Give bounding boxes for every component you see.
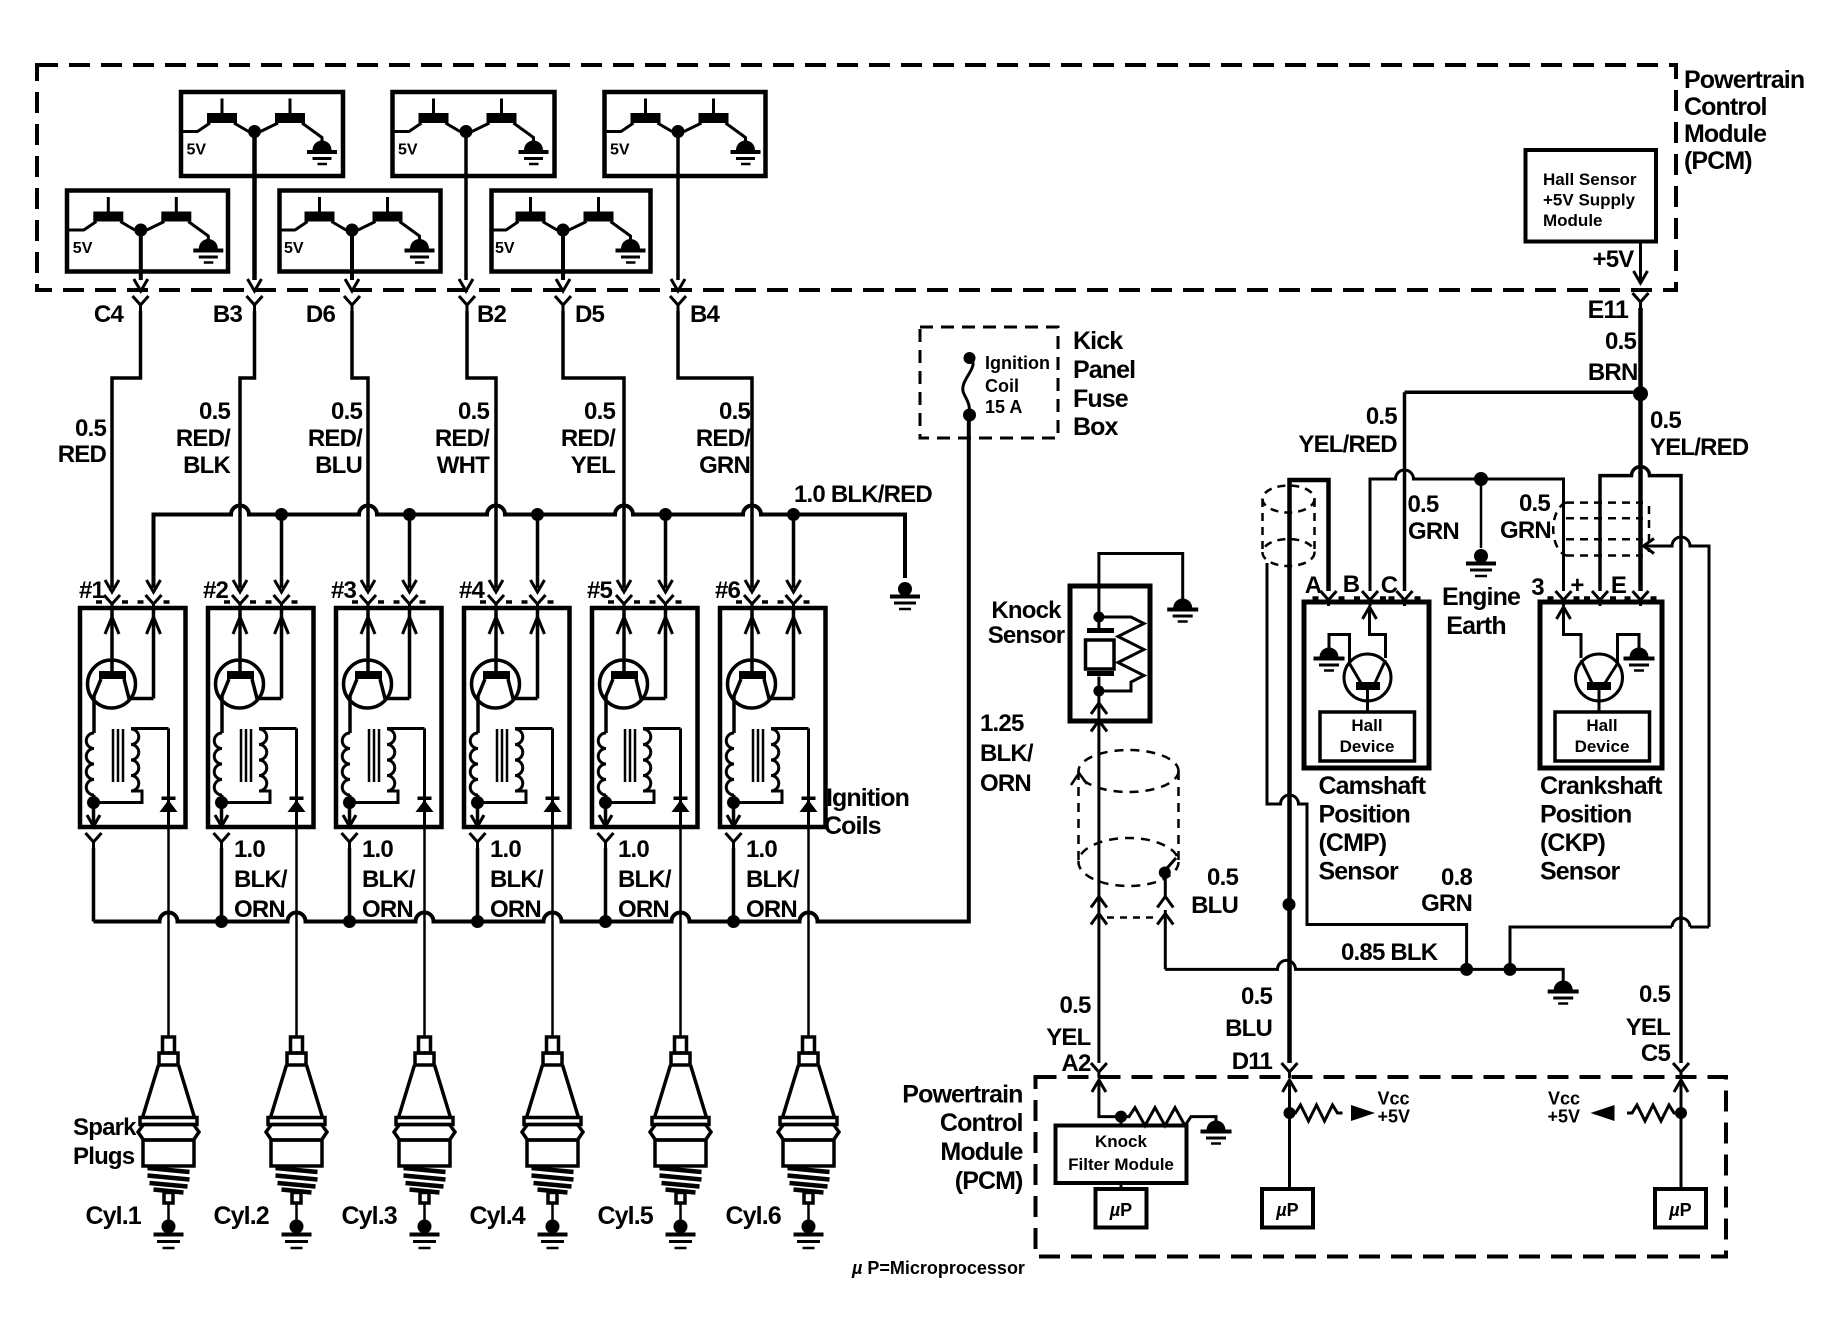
svg-text:B2: B2	[477, 301, 507, 328]
label Kick Panel Fuse Box	[1073, 327, 1135, 441]
svg-text:0.5: 0.5	[1639, 981, 1670, 1008]
CKP sensor box	[1540, 602, 1662, 768]
svg-text:0.5: 0.5	[1650, 407, 1681, 434]
dashed connector tie line	[1107, 916, 1158, 919]
coil bottom output connectors	[86, 833, 742, 848]
svg-text:0.5: 0.5	[458, 398, 489, 425]
svg-text:Device: Device	[1575, 737, 1630, 756]
ignition coil T3	[331, 577, 442, 827]
connector pin B4	[670, 296, 721, 328]
svg-text:0.5: 0.5	[199, 398, 230, 425]
svg-text:A: A	[1305, 572, 1322, 599]
wire 0.5 GRN bus with hop over pin C wire	[1370, 470, 1564, 591]
spark plug cyl 5	[650, 1037, 711, 1248]
wire CKP pin + to PCM C5 (0.5 YEL)	[1600, 467, 1681, 1063]
connector pin B3	[213, 296, 263, 328]
svg-text:Position: Position	[1319, 801, 1410, 829]
CKP Hall Device box	[1555, 712, 1650, 761]
driver U4 (C4) box	[67, 191, 228, 272]
svg-text:YEL: YEL	[1046, 1024, 1090, 1051]
knock signal connector chevrons	[1091, 896, 1107, 1063]
spark plug cyl 4	[522, 1037, 583, 1248]
driver U1 (B3) box	[181, 92, 343, 176]
svg-text:Sensor: Sensor	[1540, 858, 1621, 886]
driver U2 (B2) box	[393, 92, 555, 176]
wire bus 0.85 BLK with hop over D11 wire	[1165, 960, 1563, 982]
wire CMP pin A to PCM D11 (0.5 BLU)	[1283, 480, 1329, 1063]
svg-text:Cyl.5: Cyl.5	[598, 1202, 654, 1230]
svg-text:A2: A2	[1061, 1050, 1091, 1077]
label Powertrain Control Module (PCM) bottom left	[902, 1081, 1023, 1196]
svg-text:Cyl.3: Cyl.3	[342, 1202, 397, 1230]
svg-text:YEL/RED: YEL/RED	[1298, 431, 1397, 458]
svg-text:Ignition: Ignition	[985, 353, 1050, 373]
svg-text:Plugs: Plugs	[73, 1143, 135, 1170]
spark plug HT wires	[169, 827, 809, 1037]
ground dome for knock shield	[1167, 599, 1198, 622]
svg-text:Knock: Knock	[1095, 1132, 1148, 1151]
svg-text:RED/: RED/	[696, 425, 751, 452]
svg-text:WHT: WHT	[437, 452, 490, 479]
ground dome in PCM knock channel	[1201, 1121, 1232, 1144]
svg-text:Vcc: Vcc	[1548, 1089, 1580, 1109]
CKP shield drain wire	[1510, 537, 1709, 966]
label 0.5 YEL A2	[1046, 992, 1091, 1077]
Knock Filter Module box	[1056, 1117, 1187, 1183]
ignition coil T1	[79, 577, 186, 827]
spark plug cyl 2	[266, 1037, 327, 1248]
svg-text:RED/: RED/	[561, 425, 616, 452]
PCM (bottom) enclosure dashed box	[1036, 1077, 1727, 1257]
svg-text:+5V: +5V	[1378, 1107, 1411, 1127]
CKP shield oval dashed	[1553, 503, 1649, 556]
wire branch to pin C	[1405, 391, 1641, 395]
svg-text:GRN: GRN	[699, 452, 750, 479]
microprocessor box 2	[1262, 1189, 1313, 1228]
wire: B4 driver output	[671, 132, 685, 292]
svg-text:Module: Module	[1543, 211, 1603, 230]
svg-text:Fuse: Fuse	[1073, 385, 1129, 413]
label 0.5 RED/BLK	[176, 398, 232, 479]
svg-text:Cyl.2: Cyl.2	[214, 1202, 269, 1230]
svg-text:1.0: 1.0	[362, 836, 393, 863]
svg-text:Cyl.4: Cyl.4	[470, 1202, 526, 1230]
CMP pin connectors A B C	[1305, 571, 1421, 606]
junction dots on BLK/RED bus	[275, 508, 800, 521]
svg-text:BLU: BLU	[1225, 1015, 1272, 1042]
svg-text:Knock: Knock	[991, 597, 1062, 624]
svg-text:0.5: 0.5	[1519, 490, 1550, 517]
label Ignition Coils	[824, 784, 909, 840]
svg-text:RED: RED	[58, 441, 107, 468]
svg-text:+: +	[1570, 572, 1584, 599]
svg-text:C: C	[1381, 572, 1398, 599]
label 0.5 YEL/RED left	[1298, 403, 1397, 458]
svg-text:BRN: BRN	[1588, 359, 1638, 386]
svg-text:GRN: GRN	[1421, 890, 1472, 917]
connector A2 into PCM	[1091, 1063, 1107, 1092]
svg-text:Panel: Panel	[1073, 356, 1135, 384]
svg-text:1.0: 1.0	[618, 836, 649, 863]
svg-text:Crankshaft: Crankshaft	[1540, 772, 1663, 800]
svg-text:B: B	[1343, 571, 1360, 598]
svg-text:D5: D5	[575, 301, 605, 328]
Hall Sensor +5V Supply Module box	[1526, 150, 1657, 242]
svg-text:BLU: BLU	[1191, 892, 1238, 919]
coil primary return wires	[94, 848, 734, 922]
labels Cyl.1 - Cyl.6	[86, 1202, 781, 1230]
wire 0.5 RED/BLK to coil 2	[240, 311, 255, 588]
svg-text:0.5: 0.5	[1207, 864, 1238, 891]
svg-text:Position: Position	[1540, 801, 1631, 829]
svg-text:#6: #6	[715, 577, 741, 604]
svg-text:0.5: 0.5	[1241, 983, 1272, 1010]
wire: B2 driver output	[459, 132, 473, 292]
knock shield drain wire to BLK bus	[1157, 858, 1176, 969]
label Crankshaft Position (CKP) Sensor	[1540, 772, 1663, 886]
svg-text:YEL: YEL	[1626, 1014, 1670, 1041]
svg-text:(PCM): (PCM)	[955, 1167, 1023, 1195]
CKP pin connectors 3 + E	[1531, 572, 1656, 606]
svg-text:C5: C5	[1641, 1040, 1671, 1067]
svg-text:Ignition: Ignition	[826, 784, 909, 812]
CKP internal ground dome	[1624, 648, 1655, 671]
labels 1.0 BLK/ORN	[234, 836, 800, 923]
ground for BLK/RED bus	[890, 582, 920, 609]
svg-text:BLU: BLU	[315, 452, 362, 479]
svg-text:(CMP): (CMP)	[1319, 829, 1387, 857]
svg-text:E11: E11	[1588, 296, 1629, 324]
svg-text:+5V Supply: +5V Supply	[1543, 191, 1636, 210]
svg-text:Powertrain: Powertrain	[902, 1081, 1022, 1109]
svg-text:Hall: Hall	[1586, 716, 1617, 735]
connector D11 into PCM	[1282, 1063, 1298, 1092]
CMP Hall Device box	[1320, 712, 1415, 761]
svg-text:RED/: RED/	[435, 425, 490, 452]
svg-text:Coil: Coil	[985, 376, 1019, 396]
label 1.25 BLK/ORN	[980, 710, 1034, 797]
CMP harness shield dashed cylinder	[1263, 486, 1315, 567]
CMP sensor box	[1304, 602, 1429, 768]
knock sensor output connector chevrons	[1091, 691, 1107, 896]
wire 0.5 RED/BLU to coil 3	[352, 311, 368, 588]
svg-text:Control: Control	[940, 1109, 1023, 1137]
wire 0.5 YEL/RED to CMP pin C	[1403, 392, 1407, 591]
svg-text:ORN: ORN	[618, 896, 669, 923]
knock sensor piezo element	[1086, 586, 1115, 697]
driver U5 (D6) box	[279, 191, 441, 272]
label 0.5 RED/YEL	[561, 398, 616, 479]
svg-text:Powertrain: Powertrain	[1684, 66, 1804, 94]
svg-text:Control: Control	[1684, 93, 1767, 121]
knock input channel: wire, dot, resistor, ground	[1099, 1080, 1216, 1126]
label 0.5 BLU (knock area)	[1191, 864, 1238, 919]
knock sensor resistor	[1099, 617, 1144, 691]
svg-text:Earth: Earth	[1446, 612, 1505, 640]
label 0.5 RED	[58, 415, 107, 468]
svg-text:+5V: +5V	[1593, 246, 1635, 273]
CMP internal ground dome	[1314, 648, 1345, 671]
svg-text:BLK/: BLK/	[618, 866, 672, 893]
junction dots on BLK bus	[1460, 963, 1516, 976]
spark plug cyl 1	[138, 1037, 199, 1248]
coil input connectors row	[96, 580, 810, 610]
ignition coil T4	[459, 577, 570, 827]
spark plug cyl 6	[778, 1037, 839, 1248]
svg-text:+5V: +5V	[1547, 1107, 1580, 1127]
svg-text:0.5: 0.5	[331, 398, 362, 425]
svg-text:YEL/RED: YEL/RED	[1650, 434, 1749, 461]
connector pin B2	[459, 296, 507, 328]
PCM (top) enclosure dashed box	[37, 65, 1676, 290]
svg-text:ORN: ORN	[490, 896, 541, 923]
svg-text:RED/: RED/	[308, 425, 363, 452]
svg-text:Sensor: Sensor	[988, 622, 1065, 649]
shield arrow mark	[1071, 773, 1087, 785]
svg-text:#1: #1	[79, 577, 105, 604]
svg-text:(CKP): (CKP)	[1540, 829, 1606, 857]
microprocessor box 1	[1096, 1183, 1147, 1228]
label 0.5 RED/GRN	[696, 398, 751, 479]
connector pin D5	[555, 296, 605, 328]
svg-text:#2: #2	[203, 577, 229, 604]
svg-text:Module: Module	[1684, 120, 1767, 148]
svg-text:0.5: 0.5	[1408, 491, 1439, 518]
CMP shield drain wire (0.8 GRN) to BLK bus	[1267, 563, 1467, 966]
svg-text:D11: D11	[1232, 1048, 1273, 1075]
ignition coil T6	[715, 577, 826, 827]
label Camshaft Position (CMP) Sensor	[1319, 772, 1427, 886]
junction dots on BLK/ORN bus	[215, 915, 740, 928]
svg-text:0.5: 0.5	[1366, 403, 1397, 430]
engine earth ground	[1466, 479, 1496, 576]
spark plug cyl 3	[394, 1037, 455, 1248]
label 0.8 GRN	[1421, 864, 1472, 917]
wire: D6 driver output	[345, 230, 359, 291]
wire knock sensor to shield ground	[1099, 554, 1183, 601]
svg-text:C4: C4	[94, 301, 125, 328]
svg-text:Filter Module: Filter Module	[1068, 1155, 1174, 1174]
svg-text:ORN: ORN	[980, 770, 1031, 797]
svg-text:Kick: Kick	[1073, 327, 1123, 355]
svg-text:RED/: RED/	[176, 425, 231, 452]
wire 0.5 RED/WHT to coil 4	[467, 311, 496, 588]
ignition coil T2	[203, 577, 314, 827]
wire 0.5 RED/YEL to coil 5	[563, 311, 624, 588]
svg-text:BLK/: BLK/	[490, 866, 544, 893]
wire: D5 driver output	[556, 230, 570, 291]
C5 channel: wire, dot, resistor, Vcc arrow	[1547, 1080, 1687, 1189]
svg-text:0.8: 0.8	[1441, 864, 1472, 891]
svg-text:3: 3	[1531, 574, 1544, 601]
label 0.5 YEL/RED right	[1650, 407, 1749, 461]
CMP internal circuit	[1329, 607, 1391, 712]
svg-text:BLK/: BLK/	[362, 866, 416, 893]
knock cable shield dashed cylinder	[1079, 750, 1179, 886]
svg-text:1.0 BLK/RED: 1.0 BLK/RED	[794, 481, 932, 508]
svg-text:0.5: 0.5	[719, 398, 750, 425]
svg-text:Box: Box	[1073, 413, 1119, 441]
chassis ground for BLK bus	[1548, 981, 1579, 1004]
wires from bus dots down to coil right terminals	[282, 515, 794, 589]
svg-text:1.25: 1.25	[980, 710, 1024, 737]
ignition coil T5	[587, 577, 698, 827]
svg-text:Vcc: Vcc	[1378, 1089, 1410, 1109]
svg-text:0.5: 0.5	[584, 398, 615, 425]
driver U6 (D5) box	[490, 191, 651, 272]
svg-text:0.5: 0.5	[1605, 328, 1636, 355]
label 0.5 RED/WHT	[435, 398, 490, 479]
svg-text:E: E	[1611, 572, 1627, 599]
svg-text:µP: µP	[1668, 1200, 1691, 1220]
svg-text:Module: Module	[940, 1138, 1023, 1166]
svg-text:#3: #3	[331, 577, 357, 604]
wire +5V from supply module	[1593, 242, 1648, 284]
CKP internal circuit	[1557, 607, 1640, 712]
wire bus 1.0 BLK/RED with hops	[154, 506, 906, 589]
svg-text:ORN: ORN	[746, 896, 797, 923]
svg-text:µP: µP	[1109, 1200, 1132, 1220]
microprocessor box 3	[1655, 1189, 1706, 1228]
svg-text:BLK: BLK	[183, 452, 231, 479]
svg-text:15 A: 15 A	[985, 397, 1022, 417]
svg-text:BLK/: BLK/	[746, 866, 800, 893]
svg-text:Hall Sensor: Hall Sensor	[1543, 170, 1637, 189]
svg-text:Device: Device	[1340, 737, 1395, 756]
label Spark Plugs	[73, 1114, 137, 1170]
connector C5 into PCM	[1673, 1063, 1689, 1092]
connector pin C4	[94, 296, 149, 328]
junction dot BRN/YEL-RED	[1633, 386, 1648, 401]
label: Powertrain Control Module (PCM) top right	[1684, 66, 1804, 175]
D11 channel: wire, dot, resistor, Vcc arrow	[1284, 1080, 1411, 1189]
svg-text:#4: #4	[459, 577, 486, 604]
svg-text:Sensor: Sensor	[1319, 858, 1400, 886]
svg-text:B4: B4	[690, 301, 721, 328]
svg-text:BLK/: BLK/	[234, 866, 288, 893]
label Engine Earth	[1442, 583, 1521, 640]
label Knock Sensor	[988, 597, 1065, 649]
wire 0.5 YEL/RED to CKP pin E	[1638, 394, 1643, 591]
wire: C4 driver output	[134, 230, 148, 291]
svg-text:#5: #5	[587, 577, 613, 604]
svg-text:GRN: GRN	[1408, 518, 1459, 545]
label 0.5 BLU D11	[1225, 983, 1272, 1075]
label 0.5 YEL C5	[1626, 981, 1671, 1067]
wire 0.5 RED to coil 1	[112, 311, 141, 588]
svg-text:YEL: YEL	[571, 452, 615, 479]
svg-text:Engine: Engine	[1442, 583, 1521, 611]
svg-text:(PCM): (PCM)	[1684, 147, 1752, 175]
label 0.5 GRN right	[1500, 490, 1551, 544]
svg-text:1.0: 1.0	[234, 836, 265, 863]
svg-text:Hall: Hall	[1351, 716, 1382, 735]
svg-text:Coils: Coils	[824, 812, 881, 840]
wire 0.5 RED/GRN to coil 6	[678, 311, 752, 588]
svg-text:1.0: 1.0	[746, 836, 777, 863]
svg-text:Spark: Spark	[73, 1114, 137, 1141]
wire bus 1.0 BLK/ORN with hops to fuse	[94, 415, 969, 922]
svg-text:D6: D6	[306, 301, 336, 328]
fuse box dashed enclosure	[920, 327, 1058, 438]
svg-text:B3: B3	[213, 301, 243, 328]
fuse Ignition Coil 15 A	[963, 352, 1050, 422]
svg-text:0.85 BLK: 0.85 BLK	[1341, 939, 1439, 966]
connector pin D6	[306, 296, 360, 328]
engine earth junction dot	[1474, 472, 1488, 486]
wire: B3 driver output	[248, 132, 262, 292]
knock sensor box	[1070, 586, 1150, 721]
label 0.5 RED/BLU	[308, 398, 363, 479]
svg-text:ORN: ORN	[234, 896, 285, 923]
svg-text:BLK/: BLK/	[980, 740, 1034, 767]
svg-text:GRN: GRN	[1500, 517, 1551, 544]
wire 0.5 BRN from E11	[1588, 308, 1641, 394]
svg-text:µ P=Microprocessor: µ P=Microprocessor	[851, 1258, 1025, 1278]
svg-text:0.5: 0.5	[75, 415, 106, 442]
svg-text:Cyl.6: Cyl.6	[726, 1202, 781, 1230]
svg-text:ORN: ORN	[362, 896, 413, 923]
driver U3 (B4) box	[605, 92, 766, 176]
svg-text:1.0: 1.0	[490, 836, 521, 863]
svg-text:0.5: 0.5	[1060, 992, 1091, 1019]
svg-text:Camshaft: Camshaft	[1319, 772, 1427, 800]
label 0.5 GRN left	[1408, 491, 1459, 545]
svg-text:µP: µP	[1275, 1200, 1298, 1220]
svg-text:Cyl.1: Cyl.1	[86, 1202, 142, 1230]
connector pin E11	[1588, 293, 1649, 324]
